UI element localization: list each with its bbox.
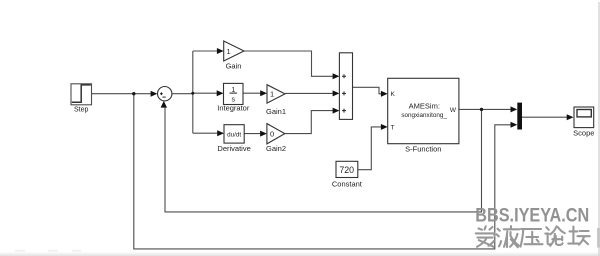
svg-text:s: s [232, 97, 236, 104]
svg-text:AMESim:: AMESim: [409, 101, 440, 110]
svg-text:songxianxitong_: songxianxitong_ [401, 112, 447, 119]
svg-text:Integrator: Integrator [217, 104, 250, 113]
svg-text:du/dt: du/dt [227, 131, 241, 138]
svg-text:Scope: Scope [573, 129, 594, 138]
svg-text:Gain2: Gain2 [266, 144, 286, 153]
svg-text:Gain1: Gain1 [266, 107, 286, 116]
svg-text:1: 1 [270, 90, 274, 99]
svg-text:S-Function: S-Function [405, 144, 441, 153]
svg-text:720: 720 [339, 165, 354, 175]
svg-text:W: W [450, 107, 457, 114]
svg-text:K: K [391, 91, 396, 98]
svg-text:0: 0 [270, 129, 274, 138]
svg-text:Constant: Constant [332, 180, 363, 189]
svg-text:T: T [391, 124, 395, 131]
svg-text:Derivative: Derivative [217, 144, 250, 153]
svg-text:1: 1 [227, 47, 231, 56]
svg-text:Step: Step [74, 106, 89, 113]
svg-text:Gain: Gain [226, 62, 242, 71]
svg-text:BBS.IYEYA.CN: BBS.IYEYA.CN [475, 204, 589, 225]
